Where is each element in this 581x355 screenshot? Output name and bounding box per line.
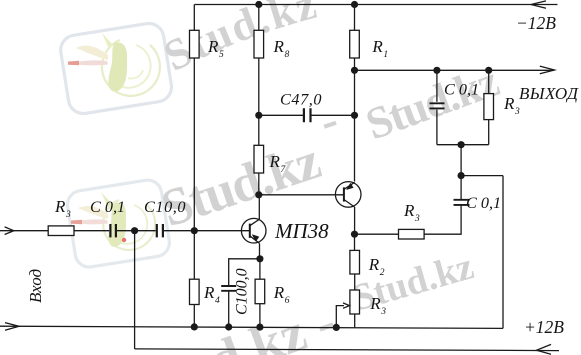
svg-text:Stud.kz: Stud.kz	[156, 0, 323, 81]
potentiometer R3	[350, 290, 360, 314]
wire R5 node to Q1 base	[194, 230, 250, 232]
svg-text:R: R	[207, 37, 219, 56]
wire input line	[0, 230, 48, 232]
wire emitter node to R3	[355, 233, 399, 235]
wire pot lower lead	[354, 314, 356, 327]
wire R5 branch lower	[193, 58, 195, 231]
svg-text:R: R	[503, 94, 515, 113]
wire output node down to C47 node	[354, 70, 356, 115]
resistor R4	[190, 279, 200, 304]
wire +12V rail	[135, 349, 559, 351]
svg-text:d.kz -: d.kz -	[202, 291, 344, 355]
svg-text:C 0,1: C 0,1	[444, 81, 479, 99]
svg-text:6: 6	[285, 296, 290, 306]
wire R2 to R3 pot	[354, 274, 356, 290]
wire R6 lower lead	[259, 304, 261, 327]
wire R5 branch upper	[193, 5, 195, 31]
svg-text:+12В: +12В	[524, 317, 564, 337]
svg-text:C47,0: C47,0	[280, 91, 322, 109]
resistor R3 output	[484, 94, 494, 120]
node rail R6	[256, 324, 263, 331]
svg-text:R: R	[269, 152, 281, 171]
resistor R6	[255, 279, 265, 304]
svg-text:3: 3	[514, 107, 520, 117]
node output C01	[433, 67, 440, 74]
wire R1 to output node	[354, 58, 356, 70]
wire R7 upper lead	[258, 115, 260, 145]
svg-text:C10,0: C10,0	[144, 198, 186, 216]
wire C01 lower to node2	[460, 145, 462, 200]
svg-text:R: R	[371, 37, 383, 56]
wire C01 upper lower lead	[436, 110, 438, 145]
arrow +12V	[537, 344, 552, 354]
node R5 input	[191, 227, 198, 234]
resistor R3 horizontal	[399, 229, 425, 239]
node right link	[458, 172, 465, 179]
resistor R1	[350, 30, 360, 58]
svg-text:R: R	[203, 283, 215, 302]
svg-text:C 0,1: C 0,1	[466, 194, 501, 212]
node top rail R1	[351, 1, 358, 8]
wire R4 upper lead	[193, 231, 195, 280]
wire Q2 emitter down	[354, 207, 356, 234]
transistor Q1	[241, 218, 266, 243]
node combo bottom	[458, 141, 465, 148]
node output R3	[485, 67, 492, 74]
resistor R2	[350, 250, 360, 274]
svg-text:R: R	[273, 37, 285, 56]
node Q2 base	[255, 191, 262, 198]
resistor R8	[254, 30, 264, 58]
svg-text:R: R	[369, 294, 381, 313]
watermark logo top-left	[59, 21, 174, 115]
wire emitter node to R6	[259, 259, 261, 279]
wire Q1 emitter down	[259, 243, 261, 258]
wire right drop down	[502, 176, 504, 329]
resistor R5	[190, 30, 200, 58]
wire R3 input to C01	[74, 230, 109, 232]
svg-text:Вход: Вход	[26, 268, 45, 303]
wire C01 upper branch	[436, 70, 438, 102]
node output R1	[351, 67, 358, 74]
wire C47 left lead	[259, 114, 304, 116]
svg-text:R: R	[273, 283, 285, 302]
node C47 left	[255, 112, 262, 119]
svg-text:МП38: МП38	[274, 219, 329, 243]
resistor R7	[254, 145, 264, 173]
node C47 right	[351, 112, 358, 119]
capacitor C0,1 lower plates	[454, 200, 470, 205]
svg-text:5: 5	[219, 50, 224, 60]
wiper arrowhead	[343, 303, 349, 308]
svg-text:ВЫХОД: ВЫХОД	[519, 84, 579, 103]
wire Q2 collector from C47 node	[354, 115, 356, 181]
svg-text:C100,0: C100,0	[234, 268, 251, 315]
wire node2 to right drop	[461, 175, 503, 177]
node input caps	[131, 227, 138, 234]
wire output rail	[355, 69, 555, 71]
wire R7 to Q1 collector node	[258, 173, 260, 195]
wire R8 to C47 node	[258, 58, 260, 115]
wire C100 top link	[229, 259, 260, 286]
wire R2 upper lead	[354, 234, 356, 250]
wire C100 lower lead	[228, 292, 230, 328]
capacitor C100,0 plates	[221, 286, 236, 291]
wire R3 output lower lead	[488, 120, 490, 145]
wire R8 branch upper	[258, 5, 260, 31]
arrow -12V	[531, 1, 546, 8]
svg-text:1: 1	[383, 50, 388, 60]
transistor Q2	[335, 182, 361, 208]
wire bottom rail	[0, 326, 503, 328]
wire C01 to node	[117, 230, 156, 232]
wire top rail	[194, 4, 557, 6]
capacitor C0,1 output plates	[430, 103, 445, 108]
wire Q2 base lead	[259, 194, 344, 196]
svg-text:8: 8	[285, 50, 290, 60]
watermark logo mid-left	[65, 178, 171, 269]
wire R4 lower lead	[193, 305, 195, 327]
node rail wiper	[333, 324, 340, 331]
node top rail R8	[255, 1, 262, 8]
capacitor C0,1 input plates	[110, 224, 116, 237]
wire C10 to R5 node	[164, 230, 194, 232]
capacitor C10,0 plates	[157, 224, 163, 237]
arrow bottom input	[5, 323, 19, 331]
wire R1 branch upper	[354, 5, 356, 31]
svg-text:Stud.kz: Stud.kz	[348, 245, 478, 319]
svg-text:C 0,1: C 0,1	[90, 198, 125, 216]
wiper arm wire	[336, 306, 344, 328]
svg-text:R: R	[54, 197, 66, 216]
wire R3 output upper lead	[488, 70, 490, 93]
capacitor C47,0 plates	[304, 108, 311, 122]
wire R3 to C01 lower	[424, 205, 461, 234]
wire parallel combo bottom	[437, 144, 489, 146]
node rail C100	[225, 323, 232, 330]
arrow output	[540, 66, 555, 74]
wire feedback vertical	[134, 231, 136, 349]
arrow input	[5, 227, 14, 235]
svg-text:3: 3	[65, 210, 71, 220]
node Q1 emitter	[256, 255, 263, 262]
node Q2 emitter	[351, 231, 358, 238]
wire Q1 collector up	[258, 195, 260, 220]
node rail R4	[191, 323, 198, 330]
wire C47 right lead	[312, 114, 355, 116]
svg-text:−12В: −12В	[516, 13, 556, 33]
svg-text:4: 4	[215, 296, 220, 306]
svg-text:R: R	[368, 255, 380, 274]
resistor R3 input	[48, 226, 74, 236]
svg-text:3: 3	[380, 307, 386, 317]
svg-text:3: 3	[414, 214, 420, 224]
svg-text:2: 2	[380, 268, 385, 278]
svg-text:R: R	[403, 201, 415, 220]
